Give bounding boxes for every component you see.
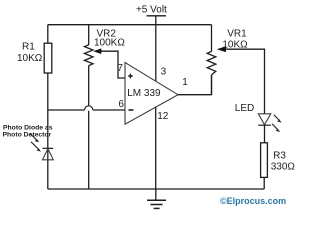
svg-text:1: 1 <box>182 77 188 88</box>
svg-text:7: 7 <box>117 63 123 74</box>
svg-text:12: 12 <box>157 111 169 122</box>
svg-text:6: 6 <box>118 99 124 110</box>
svg-text:LM 339: LM 339 <box>127 88 161 99</box>
svg-text:VR1: VR1 <box>227 29 247 40</box>
svg-text:R3: R3 <box>273 151 286 162</box>
svg-text:Photo Detector: Photo Detector <box>3 131 52 138</box>
svg-text:+5 Volt: +5 Volt <box>136 5 167 16</box>
svg-text:10KΩ: 10KΩ <box>222 39 248 50</box>
svg-text:©Elprocus.com: ©Elprocus.com <box>220 196 286 206</box>
svg-text:3: 3 <box>161 66 167 77</box>
svg-text:330Ω: 330Ω <box>271 162 296 173</box>
svg-text:100KΩ: 100KΩ <box>94 38 125 49</box>
svg-text:R1: R1 <box>22 41 35 52</box>
svg-text:LED: LED <box>235 103 254 114</box>
svg-text:Photo Diode as: Photo Diode as <box>3 124 53 131</box>
svg-text:10KΩ: 10KΩ <box>17 53 43 64</box>
